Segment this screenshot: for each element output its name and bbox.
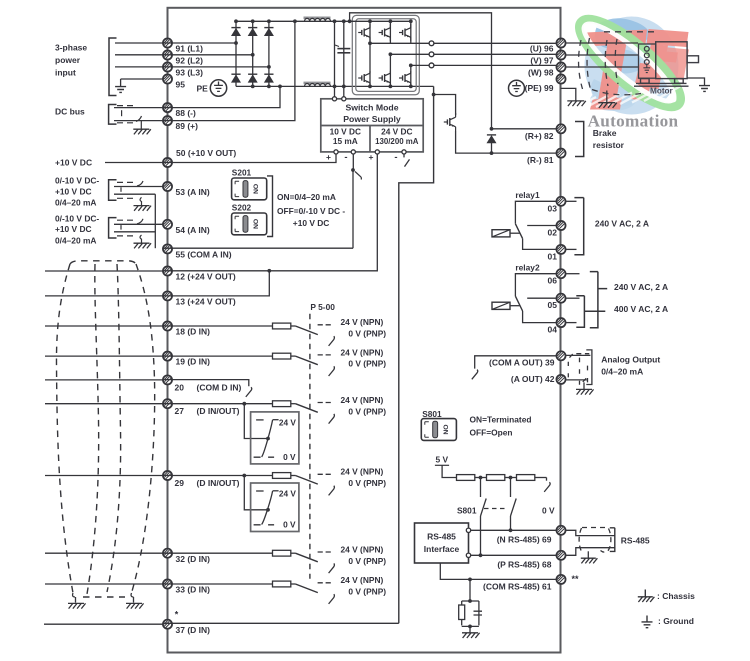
switch blade 33 [295,584,317,593]
wire dashes to 24V option 33 [318,582,331,584]
terminal 68 [556,551,565,560]
relay1 wire from 03 [515,201,557,224]
svg-text:03: 03 [548,203,558,213]
svg-text:(N RS-485) 69: (N RS-485) 69 [497,534,552,544]
node bus node D1 top [234,19,238,23]
wire 0V rail to terminal 37 [163,622,399,624]
DC rail to SMPS + [334,21,336,97]
analog cable 53 shield dashes [117,182,133,198]
svg-text:91 (L1): 91 (L1) [176,44,204,54]
waveform bottom dashes 27 [254,456,275,458]
chassis ground at motor cable [567,101,586,106]
node node on wire 69 [509,528,513,532]
relay2 wire from 06 [515,274,557,297]
terminal 32 [163,549,172,558]
svg-text:(R-) 81: (R-) 81 [527,155,554,165]
svg-text:resistor: resistor [593,140,625,150]
switch hook to 0V 27 [329,414,335,424]
RS-485 shield drain [587,551,589,557]
brake feed wire from DC+ to R+ [350,13,492,129]
DIP switch S801 [421,419,456,441]
wire after resistor 29 [291,475,296,477]
chassis ground RC termination [462,633,480,638]
terminal 99 [556,74,565,83]
IGBT lower phase V [379,71,391,85]
cable shield drain left [75,597,77,603]
svg-text:(COM D IN): (COM D IN) [197,382,242,392]
relay1 coil [492,230,510,237]
internal wire terminal 19 to resistor [163,355,272,357]
switch hook to 0V rail [544,482,550,492]
wire 10V+ to terminal 50 [163,154,336,163]
DC link capacitor [335,45,350,53]
external wire to terminal 12 [45,270,163,272]
wire 53 cable second conductor [114,193,155,195]
svg-text:NO: NO [253,219,260,229]
terminal 20 [163,375,172,384]
earth symbol at terminal 99 [509,80,525,96]
IGBT lower phase W [399,71,411,85]
node leg V top node [389,19,393,23]
node brake feed tap [348,19,352,23]
node leg W bottom node [409,85,413,89]
S801 switch upper stub P [510,478,512,498]
switch hook terminal 39 [472,370,478,380]
svg-text:relay2: relay2 [515,263,540,273]
svg-text:+10 V DC: +10 V DC [55,157,92,167]
node 10V common node [351,168,355,172]
svg-text:ON=0/4–20 mA: ON=0/4–20 mA [277,192,336,202]
wire after resistor 18 [291,325,296,327]
terminal 19 [163,352,172,361]
node bus node D2 top [251,19,255,23]
chassis ground analog output cable [576,389,594,394]
node leg U bottom node [368,85,372,89]
node collector tap on 0V drop [432,93,436,97]
chassis ground DC bus shield [133,129,151,134]
wire terminal 93 to rectifier [163,66,269,68]
rectifier diode D1 [231,28,240,36]
SMPS pin in- [342,97,346,101]
svg-text:Switch Mode: Switch Mode [345,103,398,113]
terminal 89 [163,116,172,125]
terminal 12 [163,266,172,275]
wire to terminal 82 [492,128,558,130]
relay2 NO stub to 05 [527,297,557,299]
svg-text:24 V: 24 V [279,489,297,499]
svg-text:-: - [344,152,347,163]
svg-text:400 V AC, 2 A: 400 V AC, 2 A [614,304,668,314]
svg-text:(PE) 99: (PE) 99 [525,83,554,93]
svg-text:*: * [175,610,179,620]
internal wire terminal 32 to resistor [163,552,272,554]
inverter leg U upper connection [369,21,371,43]
motor terminal box [639,44,656,78]
svg-text:93 (L3): 93 (L3) [176,68,204,78]
node SMPS rail crossing 1 [333,85,337,89]
svg-text:RS-485: RS-485 [427,531,456,541]
IGBT upper phase U [358,24,370,41]
legend chassis ground [638,597,655,602]
wire to terminal 96 [434,42,557,44]
terminal 91 [163,38,172,47]
svg-text:19 (D IN): 19 (D IN) [176,357,211,367]
wire terminal 89 to DC+ bus [163,21,295,120]
svg-text:37 (D IN): 37 (D IN) [176,625,211,635]
svg-text:130/200 mA: 130/200 mA [375,137,419,146]
svg-text:0/4–20 mA: 0/4–20 mA [601,367,643,377]
brake freewheel diode [487,135,496,143]
switch blade 18 [295,326,317,335]
phase W output wire [411,64,429,66]
svg-text:(P RS-485) 68: (P RS-485) 68 [497,559,551,569]
SMPS pin 24V+ [375,150,379,154]
wire dashes to 24V option 32 [318,551,331,553]
svg-text:NO: NO [443,424,450,434]
IGBT upper phase V [379,24,391,41]
node R- node [490,151,494,155]
waveform edge 27 [262,420,273,457]
wire 10V- drop [352,154,354,170]
svg-text:3-phase: 3-phase [55,43,87,53]
external wire to terminal 27 [45,403,163,405]
rectifier diode D2 [248,28,257,36]
svg-text:(D IN/OUT): (D IN/OUT) [197,406,240,416]
external wire to terminal 37 [44,623,163,625]
wire between resistors 1-2 [475,477,487,479]
IGBT lower phase U [358,71,370,85]
svg-text:29: 29 [175,478,185,488]
svg-text:33 (D IN): 33 (D IN) [176,585,211,595]
inverter module outline [352,15,419,94]
svg-text:S201: S201 [232,168,252,178]
svg-text:95: 95 [176,80,186,90]
wire after resistor 19 [291,355,296,357]
rectifier leg D1/D4 [235,21,237,86]
terminal 69 [556,526,565,535]
switch hook terminal 20 [246,387,252,397]
terminal 95 [163,74,172,83]
svg-text:(A OUT) 42: (A OUT) 42 [511,374,555,384]
relay2 wire to 04 [523,311,557,323]
svg-text:88 (-): 88 (-) [176,108,196,118]
wire to terminal 50 [105,162,163,164]
svg-text:02: 02 [548,228,558,238]
DC bus cable shield dash vertical [121,110,123,116]
svg-text:24 V (NPN): 24 V (NPN) [341,317,384,327]
switch blade 19 [295,356,317,365]
terminal 33 [163,579,172,588]
svg-text:0 V: 0 V [283,520,296,530]
wire dashes to 24V option 18 [318,324,331,326]
analog output cable dashed [566,350,592,389]
5V underline [435,464,449,466]
termination RC network [459,601,482,626]
termination resistor 1 [457,475,475,481]
cable shield drain right [133,597,135,603]
rectifier diode D5 [248,74,257,82]
wire L2 input [115,54,163,56]
svg-text:Motor: Motor [650,86,674,95]
wire after resistor 32 [291,552,296,554]
wire 24V+ branch to terminal 13 [163,271,269,296]
svg-text:Brake: Brake [593,128,617,138]
node node on waveform edge 29 [266,508,270,512]
legend earth ground [642,622,653,628]
inverter leg V upper connection [389,21,391,43]
svg-text:27: 27 [175,406,185,416]
wire N RS-485 to terminal 69 [471,529,557,531]
svg-text:0/-10 V DC-: 0/-10 V DC- [55,176,99,186]
svg-text:06: 06 [548,276,558,286]
terminal 04 [556,318,565,327]
terminal 42 [556,375,565,384]
wire 29 to waveform box [244,476,266,510]
earth ground at motor [699,86,710,92]
brake IGBT collector wire [434,95,456,116]
waveform bottom dashes 29 [254,524,275,526]
node pullup node N [479,476,483,480]
external wire to terminal 20 [45,379,163,381]
wire IGBT emitter to terminal 81 [456,131,557,153]
svg-text:13 (+24 V OUT): 13 (+24 V OUT) [176,297,236,307]
inverter leg W upper connection [410,21,412,43]
wire terminal 88 to DC- bus [163,86,280,107]
svg-text:32 (D IN): 32 (D IN) [176,554,211,564]
legend ground stem [646,616,648,622]
svg-text:24 V (NPN): 24 V (NPN) [341,395,384,405]
svg-text:15 mA: 15 mA [333,136,358,146]
wire between resistors 2-3 [505,477,517,479]
motor body [634,42,699,86]
inductor DC- choke L2 [304,82,331,87]
DC bus shield drain hook [136,116,142,122]
internal wire terminal 29 to resistor [163,475,272,477]
node DC- tap for 88 [278,85,282,89]
S801 switch blade P [511,499,517,517]
terminal 27 [163,399,172,408]
rectifier diode D3 [264,28,273,36]
stub right of 04 [566,322,577,324]
DC+ rail into inverter [345,20,411,22]
external wire to terminal 29 [45,475,163,477]
node node on wire 68 [479,553,483,557]
svg-text:240 V AC, 2 A: 240 V AC, 2 A [595,218,649,228]
waveform edge 29 [262,491,273,525]
relay1 moving blade [515,224,522,239]
svg-text:**: ** [572,574,580,584]
node node on waveform edge 27 [266,437,270,441]
switch hook to 0V 19 [329,366,335,376]
svg-text:S202: S202 [232,203,252,213]
wire after resistor 3 [535,477,547,479]
wire dashes to 24V option 29 [318,473,331,475]
chassis ground cable bundle left [68,603,86,608]
terminal 53 [163,182,172,191]
wire dashes to 24V option 27 [318,402,331,404]
resistor on terminal 19 input [273,353,291,359]
svg-text:0 V (PNP): 0 V (PNP) [348,478,386,488]
earth symbol at terminal 95 [210,80,226,96]
terminal 92 [163,50,172,59]
svg-text:0 V (PNP): 0 V (PNP) [348,556,386,566]
terminal 06 [556,269,565,278]
analog cable 54 shield dashes [117,220,133,236]
terminal 29 [163,471,172,480]
svg-text:PE: PE [197,84,209,94]
svg-text:(U) 96: (U) 96 [530,44,554,54]
RS-485 box pin N [466,528,470,532]
chassis ground analog cable 53 [134,206,152,211]
svg-text:240 V AC, 2 A: 240 V AC, 2 A [614,282,668,292]
output node circle V [429,52,434,57]
pulse output box for terminal 29 [251,483,299,532]
node L1 tap [234,41,238,45]
resistor on terminal 33 input [273,581,291,587]
SMPS pin 24V- [402,150,406,154]
bracket 3-phase input [109,38,117,96]
svg-text:+10 V DC: +10 V DC [55,186,92,196]
svg-text:+: + [326,152,331,162]
S801 gang dashed link [484,508,507,510]
terminal 82 [556,124,565,133]
internal wire terminal 27 to resistor [163,403,272,405]
terminal 50 [163,158,172,167]
chassis ground motor cable shield [598,103,617,108]
terminal 02 [556,221,565,230]
wire 10V common to terminal 55 [163,170,353,248]
S801 switch lower stub P [510,516,512,530]
node leg V bottom node [389,85,393,89]
rectifier leg D3/D6 [268,21,270,86]
wire end before 0V switch [546,478,548,481]
wire to termination network [469,579,471,601]
dashed control cable bundle [56,261,154,597]
svg-text:12 (+24 V OUT): 12 (+24 V OUT) [176,272,236,282]
node SMPS rail crossing 2 [342,85,346,89]
node L3 tap [267,65,271,69]
svg-text:24 V (NPN): 24 V (NPN) [341,347,384,357]
svg-text:24 V: 24 V [279,418,297,428]
external wire to terminal 32 [45,552,163,554]
svg-text:ON=Terminated: ON=Terminated [470,414,532,424]
inductor DC+ choke L1 [304,17,331,22]
svg-text:92 (L2): 92 (L2) [176,56,204,66]
SMPS pin 10V- [351,150,355,154]
terminal 37 [163,620,172,629]
DC bus shield drain stem [140,121,142,129]
termination resistor 3 [517,475,535,481]
node phase V output node [389,52,393,56]
drive enclosure box [168,8,561,653]
resistor on terminal 29 input [273,473,291,479]
inverter leg U lower connection [369,43,371,86]
node phase U output node [368,41,372,45]
svg-text:04: 04 [548,325,558,335]
svg-text:+: + [369,152,374,162]
brake chopper IGBT [444,113,456,131]
waveform top tick 29 [273,490,279,492]
wire 27 to waveform box [244,404,266,439]
svg-text:0 V: 0 V [542,505,555,515]
S801 switch lower stub N [480,516,482,555]
watermark white stripes [572,87,680,111]
node SMPS rail tap - [342,19,346,23]
wire L3 input [115,66,163,68]
analog cable 54 drain [140,235,142,243]
DC- bus from rectifier [236,85,434,87]
wire 69 external [565,530,615,535]
legend chassis stem [644,590,646,597]
terminal 18 [163,321,172,330]
DC+ bus from rectifier [236,20,345,22]
svg-text:(W) 98: (W) 98 [528,68,554,78]
analog cable 54 shield dash vertical [120,225,122,230]
external wire to terminal 33 [45,583,163,585]
stub right of 05 [566,297,580,299]
wire PE input [121,78,164,80]
analog cable 53 drain hook [137,181,143,186]
wire 68 external [565,548,615,556]
node pullup node P [509,476,513,480]
svg-text:5 V: 5 V [436,454,449,464]
wire terminal 20 internal stub [163,380,249,387]
wire 24V+ to terminal 12 [163,154,377,271]
node L2 tap [251,53,255,57]
svg-text:P 5-00: P 5-00 [310,302,335,312]
wire to terminal 54 [114,223,163,225]
wire to terminal 97 [434,53,557,55]
svg-text:(COM RS-485) 61: (COM RS-485) 61 [483,581,552,591]
node SMPS rail tap + [333,19,337,23]
terminal 61 [556,575,565,584]
drain motor cable shield [606,91,608,103]
phase V output wire [390,53,429,55]
rectifier leg D2/D5 [252,21,254,86]
rectifier diode D6 [264,74,273,82]
svg-text:S801: S801 [422,409,442,419]
svg-text:(V) 97: (V) 97 [530,56,553,66]
svg-text:Analog Output: Analog Output [601,354,660,364]
bracket analog cable 53 [109,180,117,200]
inverter leg V lower connection [389,54,391,86]
svg-text:power: power [55,55,81,65]
terminal 96 [556,38,565,47]
svg-text:50 (+10 V OUT): 50 (+10 V OUT) [176,148,236,158]
wire 54 cable second conductor [114,231,155,233]
switch hook to 0V 29 [329,486,335,496]
DIP switch S202 [232,213,267,235]
waveform top tick 27 [273,419,279,421]
node DC+ tap for 89 [293,19,297,23]
terminal 54 [163,220,172,229]
svg-text:(D IN/OUT): (D IN/OUT) [197,478,240,488]
terminal 39 [556,351,565,360]
terminal 88 [163,103,172,112]
diode anode wire [491,143,493,153]
node leg U top node [368,19,372,23]
output node circle W [429,63,434,68]
svg-text:0 V (PNP): 0 V (PNP) [348,329,386,339]
node leg W top node [409,19,413,23]
watermark TF Automation logo [568,7,692,131]
earth ground at 3-phase input [115,87,126,93]
relay1 wire to 01 [523,239,557,250]
svg-text:53 (A IN): 53 (A IN) [176,187,210,197]
switch blade 27 [295,404,317,413]
svg-text:24 V DC: 24 V DC [381,127,412,137]
terminal 01 [556,245,565,254]
